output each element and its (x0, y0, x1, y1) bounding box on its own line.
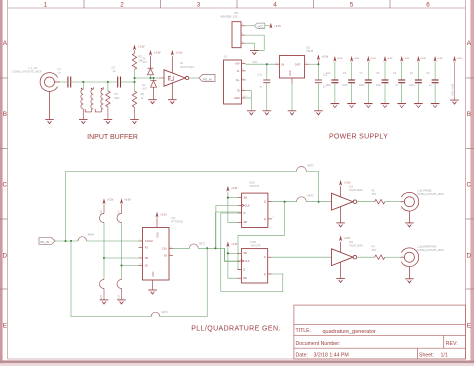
svg-text:100n: 100n (342, 84, 348, 87)
svg-text:VCC: VCC (258, 25, 264, 29)
wire C1 to C2 (71, 81, 118, 83)
ground under J2 (405, 223, 414, 227)
net label PD_IN (top) (199, 75, 215, 82)
wires FF1 S/R tie (228, 192, 238, 223)
wire jog to U1 (135, 77, 159, 79)
svg-text:ID: ID (237, 90, 240, 93)
resistor R1 (107, 82, 109, 91)
svg-text:4: 4 (273, 2, 277, 9)
wire FF2 Q to buffer (272, 256, 332, 258)
ground under J1 (45, 120, 54, 124)
svg-text:74LVC1G14: 74LVC1G14 (180, 65, 195, 69)
svg-text:+3.3V: +3.3V (107, 199, 114, 202)
svg-text:+3.3V: +3.3V (344, 181, 351, 184)
svg-text:GND: GND (289, 70, 292, 76)
svg-text:+3.3V: +3.3V (337, 58, 343, 60)
svg-text:D: D (467, 253, 472, 260)
svg-text:74LVC74: 74LVC74 (249, 185, 259, 188)
ground under JP1 (250, 51, 259, 55)
supply +3.3V over IC3 (339, 180, 342, 186)
capacitor C3 (393, 56, 410, 108)
capacitor C1 (67, 77, 69, 88)
svg-text:+3.3V: +3.3V (154, 51, 161, 54)
top feedback wire (66, 171, 297, 241)
svg-text:CLK: CLK (245, 204, 250, 207)
svg-text:PD_IN: PD_IN (203, 77, 212, 81)
svg-text:VCC: VCC (252, 61, 257, 64)
svg-text:RD: RD (244, 221, 248, 224)
frame: row letters right (467, 40, 472, 329)
supply tie U$1 (+3.3V to GND) (453, 56, 456, 62)
svg-text:R1: R1 (115, 92, 119, 96)
ground under TR1 (79, 120, 88, 124)
svg-text:4V7: 4V7 (143, 61, 148, 64)
resistor R18 pull-up column left (103, 198, 106, 204)
supply +3.3V over D2 (149, 50, 152, 56)
resistor R4 (375, 255, 385, 259)
svg-text:CLK: CLK (162, 247, 167, 250)
svg-text:+3.3V: +3.3V (437, 58, 443, 60)
svg-text:R2: R2 (141, 92, 145, 96)
wire clk to FF1 CLK (216, 205, 238, 248)
wire reg output (309, 63, 318, 65)
resistor R3 pull-up (134, 70, 136, 79)
ground under X1 (247, 111, 256, 115)
svg-text:IN: IN (282, 62, 285, 66)
capacitor C7 (359, 56, 376, 108)
resistor R19 pull-down column right (121, 266, 123, 280)
svg-text:SB: SB (145, 257, 149, 260)
svg-text:+3.3V: +3.3V (231, 243, 238, 246)
net label PD_IN (bottom) (39, 238, 55, 245)
svg-text:+3.3V: +3.3V (322, 56, 329, 59)
ground under IC4 (336, 278, 345, 282)
svg-text:+3.3V: +3.3V (387, 58, 393, 60)
connector J3 (BNC quadrature out) (400, 248, 418, 279)
supply +3.3V over IC4 (339, 235, 342, 241)
svg-text:SD: SD (244, 197, 248, 200)
wire jog (134, 78, 136, 82)
supply +3.3V over IC1 (156, 212, 159, 218)
svg-text:NET4: NET4 (162, 311, 169, 314)
buffer IC4 (74LVC1G04) (332, 242, 357, 278)
wire JP1 pin1 to +3.3V (245, 25, 254, 27)
svg-text:+3.3V: +3.3V (160, 213, 167, 216)
node dot S0-pin stub right (121, 265, 123, 267)
wire FB1 to IC1 (87, 240, 139, 242)
transformer TR1 (triple winding) (82, 82, 84, 89)
svg-text:GND: GND (234, 97, 240, 100)
top feedback wire right (306, 171, 318, 201)
svg-text:100n: 100n (326, 84, 332, 87)
svg-text:100n: 100n (409, 84, 415, 87)
svg-text:C: C (3, 182, 8, 189)
svg-text:POWER SUPPLY: POWER SUPPLY (329, 133, 388, 140)
ground under IC1 (148, 290, 157, 294)
svg-text:REV:: REV: (446, 341, 458, 347)
svg-text:E: E (3, 323, 7, 330)
svg-text:INPUT BUFFER: INPUT BUFFER (87, 134, 138, 141)
frame: page edge strips (0, 0, 3, 366)
wire clk to FF1 (216, 212, 242, 248)
wire U1 output (189, 77, 199, 79)
wire clock distribution (198, 247, 224, 249)
wires FF2 S/R tie (228, 247, 238, 278)
svg-text:4V7: 4V7 (143, 87, 148, 90)
svg-text:E: E (467, 323, 471, 330)
svg-text:TITLE:: TITLE: (296, 328, 312, 334)
svg-text:MAIN: MAIN (88, 234, 94, 237)
svg-text:+3.3V: +3.3V (403, 58, 409, 60)
connector X1 mini-USB (224, 60, 242, 104)
svg-text:Q: Q (264, 256, 266, 259)
wire J1 to C1 (60, 81, 67, 83)
svg-text:+3.3V: +3.3V (353, 58, 359, 60)
ground under IC5 (288, 111, 297, 115)
svg-text:GND +3.3V: GND +3.3V (451, 83, 454, 96)
wire IC3 out to R2 (357, 201, 375, 203)
svg-text:Sheet:: Sheet: (419, 352, 434, 358)
frame: column/row ticks (0, 0, 474, 289)
svg-text:D+: D+ (236, 79, 240, 82)
ground under R2 (130, 120, 139, 124)
svg-text:100n: 100n (376, 84, 382, 87)
node dots (65, 240, 67, 242)
wire IC4 out to R4 (357, 256, 375, 258)
ground under C13 (263, 111, 272, 115)
svg-text:51R: 51R (115, 96, 120, 100)
svg-text:U1: U1 (180, 61, 184, 65)
svg-text:1: 1 (44, 2, 48, 9)
wire PD_IN to ferrite FB1 (55, 240, 78, 242)
frame: row letters left (3, 40, 8, 329)
voltage regulator IC5 (279, 56, 304, 79)
svg-text:+3.3V: +3.3V (456, 58, 462, 60)
svg-text:C: C (467, 182, 472, 189)
svg-text:CONN_LAYOUT5_JACK: CONN_LAYOUT5_JACK (417, 249, 444, 252)
svg-text:Q: Q (264, 273, 266, 276)
PLL IC1 PT7C4311 (143, 228, 170, 281)
svg-text:+3.3V: +3.3V (420, 58, 426, 60)
supply +3.3V FF2 set/reset (226, 241, 229, 247)
wire +5V rail (246, 63, 280, 65)
wire clk elbow to FF2 CLK (225, 248, 238, 261)
svg-text:B: B (3, 111, 7, 118)
ferrite bead FB1 on PD_IN wire (78, 237, 87, 241)
wire reg GND to ground (291, 84, 293, 111)
net label VCC flag (254, 23, 264, 28)
resistor R2 to ground (134, 82, 136, 91)
capacitor C2 (409, 56, 426, 108)
connector JP1 header 1x3 (232, 22, 241, 48)
svg-text:D-: D- (237, 70, 240, 73)
supply +3.3V at JP1 (269, 23, 272, 29)
wire R2 to J2 (385, 201, 401, 203)
svg-text:C13: C13 (257, 73, 262, 76)
svg-text:+3.3V: +3.3V (370, 58, 376, 60)
wire FF1 D from bottom loop (FF2 Qbar) (221, 213, 283, 292)
ground under J3 (405, 279, 414, 283)
svg-text:NET2: NET2 (308, 195, 315, 198)
svg-text:CLK: CLK (245, 260, 250, 263)
wire FF1 Q to buffer (272, 201, 297, 203)
svg-text:2: 2 (120, 2, 124, 9)
wire FF1 Q branch to FF2 D (238, 202, 285, 270)
resistor R20 pull-down column left (103, 258, 105, 280)
buffer IC3 (74LVC1G04) (332, 186, 357, 222)
wire clk to FF2 (225, 248, 241, 261)
supply +3.3V FF1 set/reset (226, 186, 229, 192)
svg-text:+3.3V: +3.3V (344, 237, 351, 240)
svg-text:VDD: VDD (156, 232, 159, 237)
bottom feedback wire (71, 241, 151, 317)
svg-text:R18: R18 (100, 210, 103, 215)
diode D2 (clamp to +3.3V) (148, 56, 154, 78)
svg-text:R17: R17 (117, 210, 120, 215)
diode D1 (clamp to ground) (151, 78, 157, 99)
svg-text:CONN_LAYOUT5_JACK: CONN_LAYOUT5_JACK (417, 193, 444, 196)
resistor R17 pull-up column right (120, 198, 123, 204)
ground under C12 (314, 111, 323, 115)
svg-text:J_T_IN: J_T_IN (28, 66, 37, 70)
svg-text:GND: GND (152, 271, 155, 277)
svg-text:PD_IN: PD_IN (40, 240, 49, 244)
svg-text:Q: Q (264, 218, 266, 221)
svg-text:1/1: 1/1 (441, 352, 448, 358)
capacitor C6 (426, 56, 443, 108)
ferrite bead FB5 on Q wire (297, 197, 307, 202)
svg-text:3/2/18 1:44 PM: 3/2/18 1:44 PM (314, 352, 349, 358)
svg-text:Date:: Date: (296, 352, 308, 358)
ferrite bead FB4 on bottom feedback (151, 312, 160, 316)
svg-text:D: D (243, 269, 245, 272)
supply +3.3V over R3 (133, 44, 136, 50)
svg-text:PT7C4311: PT7C4311 (172, 221, 184, 224)
svg-text:JP1: JP1 (234, 11, 239, 15)
wire C2 to jog node (121, 81, 135, 83)
frame: column numbers (44, 2, 431, 9)
svg-text:X1: X1 (224, 55, 228, 59)
svg-text:47R: 47R (372, 193, 377, 196)
capacitor C12 (reg output) (317, 64, 319, 79)
svg-text:Q: Q (264, 201, 266, 204)
wires USB gnd/shield (246, 91, 252, 111)
ground under R19 (117, 300, 126, 304)
svg-text:47R: 47R (372, 249, 377, 252)
svg-text:+3.3V: +3.3V (138, 46, 145, 49)
svg-text:3: 3 (197, 2, 201, 9)
ground under U$1 (450, 100, 459, 104)
ferrite bead FB2 after IC1 (190, 244, 199, 248)
svg-text:5: 5 (350, 2, 354, 9)
svg-text:+5V: +5V (235, 63, 240, 66)
svg-text:PLL/QUADRATURE GEN.: PLL/QUADRATURE GEN. (191, 326, 281, 333)
ground under R1 (104, 120, 113, 124)
svg-text:74LVC74: 74LVC74 (251, 244, 261, 247)
svg-text:R19: R19 (117, 294, 120, 299)
svg-text:6: 6 (426, 2, 430, 9)
ground under IC3 (336, 223, 345, 227)
connector J2 (BNC in-phase out) (400, 192, 418, 222)
wire IC1 CLK out (173, 247, 190, 249)
flip-flop IC2A (74LVC74) (242, 193, 268, 227)
supply +3.3V at reg output (317, 60, 319, 64)
svg-text:C1: C1 (58, 67, 62, 71)
node dots (82, 81, 84, 83)
svg-text:100n: 100n (359, 84, 365, 87)
capacitor C2 (117, 77, 119, 88)
ferrite bead FB3 on top feedback (297, 166, 307, 171)
svg-text:CONN_LAYOUT5_JACK: CONN_LAYOUT5_JACK (12, 70, 42, 74)
svg-text:OUT: OUT (295, 62, 301, 66)
svg-text:B: B (467, 111, 471, 118)
resistor R2 (375, 200, 385, 204)
svg-text:X1/CLK: X1/CLK (145, 240, 154, 243)
title block (294, 305, 466, 359)
svg-text:+3.3V: +3.3V (231, 187, 238, 190)
connector J1 (BNC input) (40, 73, 60, 120)
svg-text:NET1: NET1 (199, 243, 206, 246)
svg-text:C11: C11 (326, 72, 331, 75)
capacitor C11 (326, 56, 343, 108)
svg-text:Document Number:: Document Number: (296, 341, 341, 347)
node dots at jog and diodes (134, 81, 136, 83)
svg-text:quadrature_generator: quadrature_generator (323, 329, 376, 335)
svg-text:NET3: NET3 (308, 164, 315, 167)
ground under R20 (100, 300, 109, 304)
svg-text:78L33: 78L33 (306, 50, 314, 53)
bottom feedback wire right (160, 248, 207, 316)
svg-text:+3.3V: +3.3V (176, 51, 183, 54)
svg-text:+3.3V: +3.3V (125, 199, 132, 202)
wire R4 to J3 (385, 256, 401, 258)
node dot S-pin stub left (103, 257, 105, 259)
svg-text:D: D (3, 253, 8, 260)
svg-text:74LVC1G04: 74LVC1G04 (349, 245, 363, 248)
ground under D1 (148, 100, 157, 104)
inverter U1 (74LVC1G14) (164, 56, 189, 99)
flip-flop IC2B (74LVC74) (241, 249, 267, 283)
svg-text:HEADER_1X3: HEADER_1X3 (221, 15, 238, 19)
svg-text:R20: R20 (100, 294, 103, 299)
svg-text:FS: FS (145, 247, 148, 250)
svg-text:RD: RD (243, 277, 247, 280)
svg-text:D: D (244, 212, 246, 215)
capacitor C5 (376, 56, 393, 108)
capacitor C13 (reg input) (266, 64, 268, 79)
capacitor C9 (342, 56, 359, 108)
svg-text:+3.3V: +3.3V (274, 25, 281, 28)
svg-text:C2: C2 (112, 65, 116, 69)
svg-text:SD: SD (243, 252, 247, 255)
supply +3.3V over U1 (171, 50, 174, 56)
wires JP1 pins 2,3 to ground (245, 35, 264, 50)
ground under U1 (168, 100, 177, 104)
svg-text:74LVC1G04: 74LVC1G04 (349, 189, 363, 192)
